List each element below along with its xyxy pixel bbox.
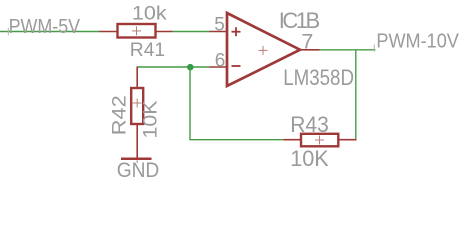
svg-text:5: 5 xyxy=(214,15,225,36)
op-amp U1 pin 6 lead xyxy=(210,66,228,68)
ground symbol bar xyxy=(121,158,152,161)
resistor R42 top lead xyxy=(136,67,138,89)
wire R41 to pin 5 xyxy=(173,31,211,33)
resistor R43 left lead xyxy=(284,139,302,141)
svg-text:R43: R43 xyxy=(290,112,329,137)
junction dot xyxy=(187,64,194,71)
svg-text:10K: 10K xyxy=(141,100,162,138)
resistor R43 body xyxy=(301,134,338,147)
op-amp origin cross xyxy=(259,46,268,55)
svg-text:10k: 10k xyxy=(132,4,167,25)
resistor R43 origin cross xyxy=(315,136,324,145)
node PWM-10V label origin tick xyxy=(373,45,375,52)
resistor R41 right lead xyxy=(156,31,173,33)
svg-text:R42: R42 xyxy=(109,95,130,135)
resistor R42 bottom lead xyxy=(136,124,138,158)
op-amp plus input mark xyxy=(232,27,241,36)
svg-text:7: 7 xyxy=(301,30,313,54)
resistor R41 left lead xyxy=(100,31,119,33)
wire pin 6 net from R42 corner to pin xyxy=(137,66,210,68)
resistor R43 right lead xyxy=(338,139,356,141)
resistor R42 body xyxy=(131,88,143,124)
svg-text:IC1B: IC1B xyxy=(279,8,321,33)
resistor R41 body xyxy=(118,24,156,38)
node PWM-5V label origin tick xyxy=(7,28,9,36)
wire net PWM-5V left segment xyxy=(0,31,100,33)
resistor R42 origin cross xyxy=(133,99,142,108)
wire feedback bottom left vertical xyxy=(190,67,284,140)
op-amp minus input mark xyxy=(232,65,241,67)
wire output net PWM-10V xyxy=(320,49,376,51)
ground origin tick xyxy=(136,160,138,163)
resistor R41 origin cross xyxy=(132,26,141,35)
svg-text:GND: GND xyxy=(117,159,160,182)
op-amp IC1B triangle xyxy=(227,13,300,86)
svg-text:R41: R41 xyxy=(130,39,165,61)
svg-text:LM358D: LM358D xyxy=(283,65,354,90)
svg-text:PWM-10V: PWM-10V xyxy=(376,30,459,53)
op-amp U1 pin 5 lead xyxy=(210,31,228,33)
svg-text:6: 6 xyxy=(215,50,226,71)
wire feedback branch vertical right xyxy=(355,50,357,140)
svg-text:10K: 10K xyxy=(290,146,329,171)
op-amp pin 7 lead xyxy=(300,49,320,51)
svg-text:PWM-5V: PWM-5V xyxy=(9,15,81,38)
